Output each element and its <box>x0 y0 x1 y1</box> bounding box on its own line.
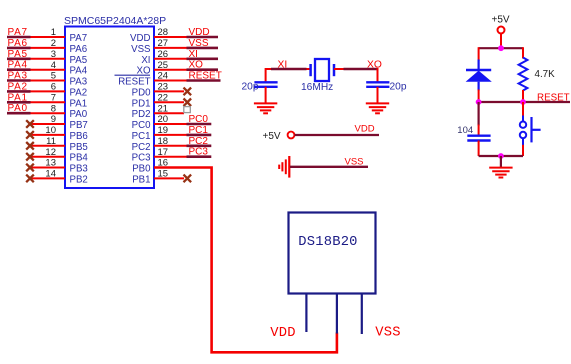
U2 pin VDD lead <box>305 294 307 333</box>
svg-text:RESET: RESET <box>118 77 150 88</box>
svg-text:PB3: PB3 <box>70 164 88 175</box>
resistor R1 4.7K <box>519 58 528 91</box>
wire pin 16 (PB0) to DS18B20 DQ <box>154 168 337 353</box>
svg-text:VDD: VDD <box>355 123 375 134</box>
svg-text:VSS: VSS <box>375 326 400 341</box>
net label PC1 underline <box>187 134 212 137</box>
svg-text:XI: XI <box>141 55 150 66</box>
svg-text:20p: 20p <box>390 81 407 92</box>
svg-text:PA1: PA1 <box>70 98 88 109</box>
svg-text:+5V: +5V <box>263 131 281 142</box>
wire pin 8 to net PA0 <box>30 112 66 114</box>
wire pin 17 to net PC3 <box>154 156 187 158</box>
svg-text:PC2: PC2 <box>132 142 151 153</box>
junction dot bottom rail <box>498 153 504 159</box>
capacitor C3 plates <box>467 136 490 141</box>
net label PA1 underline <box>7 101 31 104</box>
svg-text:PB4: PB4 <box>70 153 89 164</box>
wire XO net (horizontal) <box>334 68 378 70</box>
svg-text:SPMC65P2404A*28P: SPMC65P2404A*28P <box>64 15 166 27</box>
svg-text:XI: XI <box>278 60 288 71</box>
svg-text:PA0: PA0 <box>8 103 28 114</box>
svg-text:PB6: PB6 <box>70 131 88 142</box>
svg-text:PA6: PA6 <box>8 38 28 49</box>
svg-text:PB5: PB5 <box>70 142 88 153</box>
wire R1 to mid rail <box>522 90 524 102</box>
wire stub pin 14 <box>30 177 65 179</box>
wire pin 18 to net PC2 <box>154 145 187 147</box>
wire stub pin 21 <box>154 112 184 114</box>
sensor U2 DS18B20 body <box>289 213 376 294</box>
power port +5V circle (VDD rail) <box>288 132 295 139</box>
svg-text:PA5: PA5 <box>70 55 88 66</box>
wire VDD rail <box>295 134 379 136</box>
svg-text:PC3: PC3 <box>189 147 209 158</box>
capacitor C2 plates <box>366 82 389 87</box>
capacitor C1 plates <box>254 82 277 87</box>
svg-text:4.7K: 4.7K <box>535 69 556 80</box>
svg-text:16MHz: 16MHz <box>301 82 333 93</box>
wire pin 1 to net PA7 <box>30 36 66 38</box>
ground (C2) <box>366 103 389 113</box>
svg-text:PC0: PC0 <box>189 114 209 125</box>
svg-text:104: 104 <box>457 125 473 136</box>
svg-text:PA6: PA6 <box>70 44 88 55</box>
svg-text:PB0: PB0 <box>132 164 151 175</box>
wire VSS rail <box>290 166 368 168</box>
net label PC0 underline <box>187 123 212 126</box>
svg-text:VDD: VDD <box>189 27 210 38</box>
svg-text:PA2: PA2 <box>70 87 88 98</box>
no-connect X pin 15 <box>184 175 192 183</box>
svg-text:PD2: PD2 <box>132 109 151 120</box>
svg-text:20p: 20p <box>242 81 259 92</box>
wire XI to C1 <box>265 68 267 83</box>
unconnected wire-end marker pin 21 <box>184 107 191 113</box>
power port +5V circle (reset) <box>498 27 505 34</box>
svg-text:RESET: RESET <box>537 92 570 103</box>
svg-text:PA3: PA3 <box>8 71 28 82</box>
svg-text:VSS: VSS <box>345 156 364 167</box>
no-connect X pin 9 <box>26 120 34 128</box>
svg-text:VDD: VDD <box>270 326 295 341</box>
junction dot mid rail left <box>476 99 482 105</box>
switch S1 push-button <box>520 116 541 146</box>
svg-text:VSS: VSS <box>189 38 209 49</box>
svg-text:PA4: PA4 <box>8 60 28 71</box>
wire stub pin 23 <box>154 90 184 92</box>
net label XO underline <box>344 68 378 71</box>
svg-text:PC0: PC0 <box>132 120 151 131</box>
svg-text:PA2: PA2 <box>8 81 28 92</box>
net label XI underline <box>187 57 219 60</box>
net label XO underline <box>187 68 219 71</box>
svg-text:XO: XO <box>189 60 204 71</box>
wire stub pin 12 <box>30 156 65 158</box>
svg-text:PA4: PA4 <box>70 66 88 77</box>
svg-text:PA3: PA3 <box>70 77 88 88</box>
wire D1 to mid rail <box>478 90 480 103</box>
wire top rail to R1 <box>522 47 524 58</box>
net label PA5 underline <box>7 57 31 60</box>
junction dot mid rail right <box>520 99 526 105</box>
svg-text:PA7: PA7 <box>70 33 88 44</box>
wire pin 7 to net PA1 <box>30 101 66 103</box>
wire +5V to top rail <box>500 34 502 49</box>
pin 24 name RESET overline (inside U1) <box>115 74 151 76</box>
wire mid rail RESET net <box>479 101 570 103</box>
wire pin 20 to net PC0 <box>154 123 187 125</box>
net label PA3 underline <box>7 79 31 82</box>
wire pin 25 to net XO <box>154 69 187 71</box>
no-connect X pin 14 <box>26 175 34 183</box>
svg-text:XI: XI <box>189 49 198 60</box>
wire mid rail to C3 <box>478 102 480 136</box>
svg-text:PC3: PC3 <box>132 153 151 164</box>
no-connect X pin 11 <box>26 142 34 150</box>
svg-text:RESET: RESET <box>189 71 222 82</box>
wire stub pin 13 <box>30 167 65 169</box>
wire XI net (horizontal) <box>266 68 311 70</box>
wire mid rail to switch S1 <box>522 102 524 116</box>
no-connect X pin 12 <box>26 153 34 161</box>
svg-text:PA5: PA5 <box>8 49 28 60</box>
wire pin 19 to net PC1 <box>154 134 187 136</box>
svg-text:PB7: PB7 <box>70 120 88 131</box>
ground (reset) <box>489 168 512 178</box>
svg-text:VDD: VDD <box>130 33 150 44</box>
net label PC3 underline <box>187 155 212 158</box>
wire pin 6 to net PA2 <box>30 90 66 92</box>
net label PA0 underline <box>7 112 31 115</box>
wire S1 to bottom rail <box>522 145 524 156</box>
svg-text:DS18B20: DS18B20 <box>298 235 357 250</box>
wire pin 3 to net PA5 <box>30 58 66 60</box>
wire stub pin 10 <box>30 134 65 136</box>
crystal Y1 body <box>315 59 329 81</box>
svg-text:PB2: PB2 <box>70 174 88 185</box>
wire pin 26 to net XI <box>154 58 187 60</box>
net label RESET underline <box>187 79 221 82</box>
MCU U1 SPMC65P2404A*28P body <box>65 27 154 189</box>
no-connect X pin 13 <box>26 164 34 172</box>
crystal Y1 left plate <box>309 64 312 76</box>
U2 pin VSS lead <box>361 294 363 335</box>
wire stub pin 15 <box>154 177 184 179</box>
junction dot top rail <box>498 45 504 51</box>
svg-text:VSS: VSS <box>131 44 151 55</box>
no-connect X pin 22 <box>184 99 192 107</box>
wire stub pin 22 <box>154 101 184 103</box>
svg-text:PB1: PB1 <box>132 174 150 185</box>
wire bottom rail to ground <box>500 156 502 168</box>
wire C1 to ground <box>265 87 267 104</box>
wire bottom rail <box>479 155 523 157</box>
svg-text:PC1: PC1 <box>132 131 151 142</box>
ground (C1) <box>254 103 277 113</box>
svg-text:PC2: PC2 <box>189 136 209 147</box>
wire top rail <box>479 47 523 49</box>
wire pin 28 to net VDD <box>154 36 187 38</box>
wire pin 2 to net PA6 <box>30 47 66 49</box>
wire stub pin 9 <box>30 123 65 125</box>
wire pin 27 to net VSS <box>154 47 187 49</box>
crystal Y1 right plate <box>333 64 336 76</box>
svg-text:PA7: PA7 <box>8 27 28 38</box>
net label XI underline <box>271 68 307 71</box>
svg-text:PD0: PD0 <box>132 87 151 98</box>
net label PA6 underline <box>7 47 31 50</box>
svg-text:PA1: PA1 <box>8 92 28 103</box>
net label PC2 underline <box>187 145 212 148</box>
signal ground symbol (VSS rail) <box>279 156 289 178</box>
diode D1 <box>466 60 492 91</box>
svg-text:XO: XO <box>367 60 382 71</box>
no-connect X pin 23 <box>184 88 192 96</box>
wire XO to C2 <box>377 68 379 83</box>
wire top rail to D1 <box>478 47 480 61</box>
net label PA4 underline <box>7 68 31 71</box>
U2 pin DQ lead <box>336 294 338 334</box>
svg-text:PD1: PD1 <box>132 98 151 109</box>
wire pin 5 to net PA3 <box>30 80 66 82</box>
svg-text:+5V: +5V <box>492 15 510 26</box>
wire pin 4 to net PA4 <box>30 69 66 71</box>
net label VDD underline <box>187 36 219 39</box>
net label PA2 underline <box>7 90 31 93</box>
wire C3 to bottom rail <box>478 141 480 157</box>
wire pin 24 to net RESET <box>154 80 187 82</box>
net label PA7 underline <box>7 36 31 39</box>
svg-text:PA0: PA0 <box>70 109 88 120</box>
svg-text:PC1: PC1 <box>189 125 209 136</box>
no-connect X pin 10 <box>26 131 34 139</box>
wire C2 to ground <box>377 87 379 104</box>
net label VSS underline <box>187 47 219 50</box>
wire stub pin 11 <box>30 145 65 147</box>
